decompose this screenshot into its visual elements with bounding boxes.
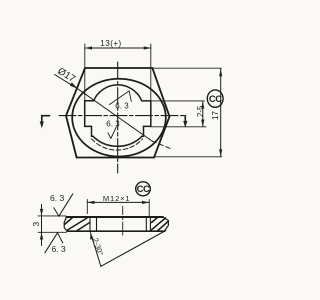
30 degree leader with arrow (section) [90, 232, 101, 266]
svg-text:M12×1: M12×1 [103, 194, 131, 203]
section arrow right (bent leader from centerline) [183, 116, 187, 128]
slotted hole outline (top view inner shape) [85, 85, 151, 146]
svg-text:6. 3: 6. 3 [106, 120, 120, 129]
svg-text:CC: CC [137, 184, 150, 195]
roughness mark 6.3 lower (top view) [106, 120, 120, 139]
label 2-30deg (rotated) [91, 237, 105, 257]
svg-text:CC: CC [209, 94, 222, 105]
roughness mark 6.3 top-left (section) [50, 193, 73, 216]
label Ø17 [55, 66, 77, 85]
section arrow left (bent leader) [40, 116, 50, 129]
svg-text:3: 3 [31, 222, 41, 227]
vertical centerline (section) [122, 207, 124, 237]
hatching left (section) [65, 218, 90, 232]
bar top edge (section) [38, 216, 163, 217]
label 2-5 (rotated) [196, 105, 205, 117]
vertical centerline (top view) [117, 62, 119, 173]
svg-text:6. 3: 6. 3 [115, 101, 129, 110]
leader line for Ø17 [55, 75, 172, 150]
hidden thread arc (dashed, bottom) [92, 139, 143, 150]
svg-text:2-5: 2-5 [196, 105, 205, 117]
right chamfered tip (section) [163, 217, 169, 231]
label M12x1 [103, 194, 131, 203]
section label C-C ellipse (right of top view) [207, 90, 223, 107]
dimension 3 (left of section) [40, 205, 43, 246]
thread hole wall lines (section) [90, 217, 150, 231]
label 3 (rotated) [31, 222, 41, 227]
label 13(+) [100, 39, 121, 48]
section label C-C ellipse (above section view) [136, 182, 151, 196]
extension line from bottom flat (for 17 dim) [154, 156, 222, 158]
dimension M12x1 [87, 200, 149, 217]
label 17 (rotated) [211, 111, 220, 120]
svg-text:6. 3: 6. 3 [50, 193, 64, 203]
horizontal centerline (top view) [59, 115, 185, 117]
svg-text:6. 3: 6. 3 [52, 244, 66, 254]
hexagon outline of nut (top view) [66, 68, 170, 158]
svg-text:17: 17 [211, 111, 220, 120]
left chamfered tip (section) [64, 217, 67, 231]
hatching right (section) [151, 218, 168, 231]
svg-text:2-30°: 2-30° [91, 237, 105, 257]
roughness mark 6.3 bottom-left (section) [45, 233, 66, 254]
extension line from top flat (for 17 dim) [152, 67, 221, 69]
dimension 2-5 (right vertical small) [201, 101, 204, 126]
extension line from slot notch (for 2-5 dim) [151, 126, 206, 128]
extension line from slot top edge (for 2-5 dim) [151, 100, 205, 102]
svg-text:13(+): 13(+) [100, 39, 121, 48]
chamfer circle (top view) [72, 79, 166, 157]
bar bottom edge (section) [38, 231, 165, 232]
30 degree cone edge line (section) [101, 231, 166, 267]
dimension 13(+) top [85, 44, 151, 101]
roughness mark 6.3 upper (top view) [110, 91, 132, 111]
dimension 17 (right vertical) [219, 69, 222, 157]
